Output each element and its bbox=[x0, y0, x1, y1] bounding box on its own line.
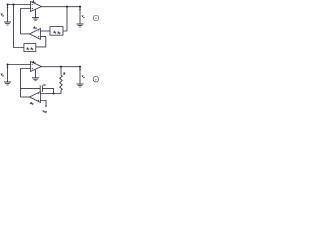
ground stub under A1 (b) bbox=[35, 70, 37, 78]
A2 plus sign (b) bbox=[38, 100, 39, 102]
ground vs (a) bbox=[4, 22, 11, 25]
A2 plus sign (a) bbox=[38, 36, 39, 38]
wire top rail (a) bbox=[8, 4, 31, 6]
svg-text:b: b bbox=[95, 77, 97, 81]
vref arrow down (b) bbox=[45, 105, 47, 108]
node vs junction dot (b) bbox=[6, 63, 8, 65]
vo arrow (a) bbox=[79, 7, 81, 10]
svg-text:k1: k1 bbox=[27, 46, 30, 51]
wire A2 output to A1 plus node (b) bbox=[21, 96, 30, 98]
resistor R (b) bbox=[60, 75, 63, 90]
svg-text:A1: A1 bbox=[31, 0, 35, 4]
wire box1 to A2 minus (a) bbox=[41, 30, 51, 32]
op-amp A1 (a) bbox=[31, 2, 42, 12]
svg-text:A2: A2 bbox=[32, 25, 37, 30]
op-amp A1 (b) bbox=[31, 62, 42, 72]
A2 minus sign (b) bbox=[38, 93, 39, 95]
A1 minus sign (b) bbox=[32, 64, 33, 66]
box1 k1k2 (a) bbox=[50, 27, 63, 36]
svg-text:vref: vref bbox=[43, 109, 47, 114]
A1 plus sign (b) bbox=[32, 68, 33, 70]
wire vo down (a) bbox=[79, 7, 81, 23]
node cap junction dot (b) bbox=[52, 92, 54, 94]
svg-text:vo: vo bbox=[82, 74, 86, 79]
wire A1 output rail (a) bbox=[41, 6, 80, 8]
A1 minus sign (a) bbox=[32, 4, 33, 6]
node vo dot (a) bbox=[79, 6, 81, 8]
op-amp A2 (a) mirrored bbox=[30, 29, 41, 40]
wire vs down (a) bbox=[7, 5, 9, 22]
svg-text:R: R bbox=[63, 71, 65, 75]
wire rail to resistor (b) bbox=[60, 67, 62, 75]
svg-text:vs: vs bbox=[1, 73, 4, 78]
ground under A1 (b) bbox=[32, 78, 39, 81]
ground under A1 (a) bbox=[32, 18, 39, 21]
node feedback tap dot (a) bbox=[12, 3, 14, 5]
svg-text:C: C bbox=[44, 83, 46, 87]
svg-text:k2: k2 bbox=[31, 47, 34, 52]
label circled b bbox=[93, 76, 99, 82]
wire vs down (b) bbox=[7, 65, 9, 82]
node feedback dot on output (a) bbox=[66, 6, 68, 8]
source vs arrow (a) bbox=[7, 5, 9, 8]
wire A1 plus input (a) bbox=[21, 9, 31, 34]
node R tap dot (b) bbox=[60, 66, 62, 68]
wire cap right to junction (b) bbox=[42, 89, 53, 94]
A1 plus sign (a) bbox=[32, 8, 33, 10]
wire feedback from output to box1 (a) bbox=[63, 7, 67, 31]
wire A2 output to A1 plus (a) bbox=[21, 33, 30, 35]
svg-text:k2: k2 bbox=[58, 30, 61, 35]
svg-text:vo: vo bbox=[82, 14, 86, 19]
node vs junction dot (a) bbox=[6, 3, 8, 5]
ground vo (a) bbox=[77, 24, 84, 27]
label circled a bbox=[93, 15, 99, 21]
box2 beta (a) bbox=[24, 44, 36, 52]
capacitor C left plate (b) bbox=[39, 85, 41, 92]
capacitor C right plate (b) bbox=[41, 85, 43, 92]
wire resistor bottom to A2 minus (b) bbox=[41, 90, 62, 93]
svg-text:vs: vs bbox=[1, 13, 4, 18]
svg-text:A1: A1 bbox=[31, 60, 35, 65]
ground vs (b) bbox=[4, 82, 11, 85]
op-amp A2 (b) mirrored bbox=[30, 92, 41, 103]
svg-text:k1: k1 bbox=[54, 30, 57, 35]
wire A2 plus to box2 (a) bbox=[36, 37, 46, 47]
wire A1 plus input (b) bbox=[21, 69, 31, 98]
wire A1 output rail (b) bbox=[41, 66, 80, 68]
node vo dot (b) bbox=[79, 66, 81, 68]
svg-text:a: a bbox=[95, 16, 97, 20]
ground stub under A1 (a) bbox=[35, 10, 37, 18]
source vs arrow (b) bbox=[7, 65, 9, 68]
A2 minus sign (a) bbox=[38, 30, 39, 32]
wire A2 plus to vref (b) bbox=[41, 101, 47, 107]
vo arrow (b) bbox=[79, 67, 81, 70]
svg-text:A2: A2 bbox=[29, 101, 34, 106]
ground vo (b) bbox=[77, 84, 84, 87]
wire box2 to input node (a) bbox=[14, 5, 24, 48]
wire cap left (b) bbox=[21, 88, 41, 90]
wire vo down (b) bbox=[79, 67, 81, 83]
wire top rail (b) bbox=[8, 64, 31, 66]
